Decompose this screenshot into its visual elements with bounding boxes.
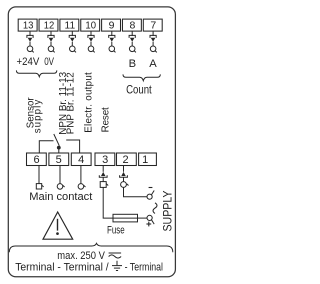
label SUPPLY [162, 190, 174, 231]
svg-text:6: 6 [34, 154, 40, 166]
terminal 4 [71, 153, 91, 166]
plug connector terminal 2 [120, 166, 129, 188]
label NPN Br. 11-13 / PNP Br. 11-12 [58, 71, 77, 134]
plug connector terminal 11 [69, 31, 76, 52]
label Electr. output [84, 72, 95, 133]
supply - terminal [147, 191, 154, 200]
terminal 4 stub (circle) [78, 166, 85, 190]
wire switch to terminal 4 [66, 140, 79, 153]
switch blade (open) [54, 134, 60, 146]
terminal 5 [49, 153, 69, 166]
device outline border [8, 7, 175, 277]
svg-text:10: 10 [85, 20, 96, 32]
label Reset [100, 107, 111, 132]
brace sensor supply group [16, 70, 56, 76]
plug connector terminal 8 [129, 31, 136, 52]
svg-text:Reset: Reset [100, 107, 111, 132]
terminal 11 [60, 19, 79, 31]
label Sensor supply [26, 97, 44, 134]
plug connector terminal 12 [48, 31, 55, 52]
svg-text:Main contact: Main contact [29, 191, 92, 203]
main contact switch wiring [39, 134, 79, 153]
svg-text:SUPPLY: SUPPLY [162, 190, 174, 231]
svg-text:3: 3 [102, 154, 108, 166]
svg-text:Count: Count [126, 85, 152, 97]
terminal 10 [81, 19, 100, 31]
svg-text:PNP Br. 11-12: PNP Br. 11-12 [66, 72, 77, 134]
terminal 9 [102, 19, 121, 31]
supply + terminal [147, 215, 154, 224]
brace count inputs [123, 74, 160, 80]
svg-text:12: 12 [44, 20, 55, 32]
svg-text:B: B [129, 58, 136, 70]
terminal 5 stub (circle) [57, 166, 64, 190]
hinge junction above terminal 5 [57, 146, 61, 150]
svg-text:- Terminal: - Terminal [125, 261, 163, 273]
svg-text:5: 5 [56, 154, 62, 166]
svg-text:supply: supply [32, 100, 43, 134]
svg-text:+24V: +24V [17, 56, 40, 68]
svg-text:13: 13 [23, 20, 34, 32]
brace max voltage span [9, 243, 173, 252]
terminal 8 [122, 19, 141, 31]
svg-text:9: 9 [109, 20, 115, 32]
label + (plus) [146, 222, 151, 227]
AC tilde between supply terminals [153, 203, 157, 214]
svg-text:0V: 0V [44, 56, 54, 68]
plug connector terminal 7 [150, 31, 157, 52]
terminal 1 [139, 153, 157, 166]
svg-text:A: A [149, 58, 157, 70]
terminal 6 stub (square) [36, 166, 43, 190]
svg-text:8: 8 [129, 20, 135, 32]
svg-text:7: 7 [150, 20, 156, 32]
warning triangle [43, 212, 73, 239]
svg-text:max. 250 V: max. 250 V [57, 250, 105, 262]
earth ground symbol [112, 261, 122, 271]
terminal 12 [39, 19, 58, 31]
plug connector terminal 9 [109, 31, 116, 52]
svg-text:11: 11 [65, 20, 76, 32]
svg-text:4: 4 [78, 154, 84, 166]
svg-text:2: 2 [123, 154, 129, 166]
fuse F1 [113, 214, 138, 222]
terminal 2 [117, 153, 137, 166]
svg-text:Electr. output: Electr. output [84, 72, 95, 133]
wire terminal 3 to fuse [103, 187, 113, 218]
plug connector terminal 13 [27, 31, 34, 52]
svg-text:1: 1 [142, 154, 148, 166]
terminal 6 [27, 153, 47, 166]
wire terminal 6 up to switch [39, 141, 53, 153]
wire fuse to supply + terminal [138, 217, 148, 219]
terminal 3 [95, 153, 115, 166]
plug connector terminal 3 [99, 166, 108, 188]
wire terminal 2 to supply - terminal [124, 187, 148, 196]
svg-text:Fuse: Fuse [107, 224, 125, 236]
terminal 7 [143, 19, 162, 31]
plug connector terminal 10 [88, 31, 95, 52]
terminal 13 [18, 19, 37, 31]
label - (minus) [149, 187, 153, 189]
svg-text:Terminal - Terminal /: Terminal - Terminal / [15, 261, 109, 273]
AC/DC symbol [109, 253, 122, 258]
